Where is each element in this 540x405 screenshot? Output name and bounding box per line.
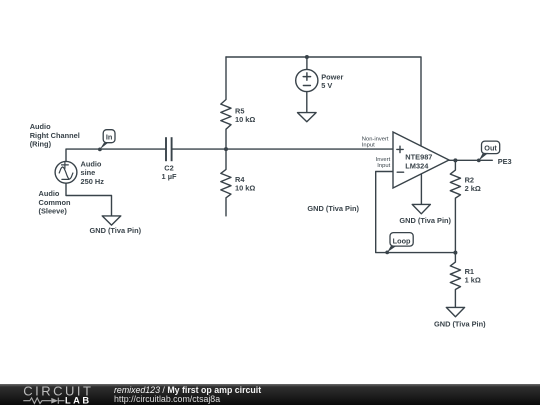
svg-text:R1: R1 xyxy=(465,267,474,276)
svg-text:Input: Input xyxy=(377,163,390,169)
svg-text:GND (Tiva Pin): GND (Tiva Pin) xyxy=(89,226,141,235)
svg-text:Audio: Audio xyxy=(30,122,51,131)
svg-text:Out: Out xyxy=(484,144,497,153)
svg-text:2 kΩ: 2 kΩ xyxy=(465,184,481,193)
svg-text:10 kΩ: 10 kΩ xyxy=(235,184,255,193)
svg-text:1 µF: 1 µF xyxy=(162,172,177,181)
svg-text:(Sleeve): (Sleeve) xyxy=(39,206,68,215)
svg-text:NTE987: NTE987 xyxy=(405,153,432,162)
svg-text:Non-invert: Non-invert xyxy=(362,136,389,142)
svg-text:250 Hz: 250 Hz xyxy=(81,177,105,186)
svg-text:GND (Tiva Pin): GND (Tiva Pin) xyxy=(399,216,451,225)
svg-text:Loop: Loop xyxy=(393,236,411,245)
svg-text:Right Channel: Right Channel xyxy=(30,131,80,140)
svg-text:10 kΩ: 10 kΩ xyxy=(235,115,255,124)
svg-text:C2: C2 xyxy=(164,163,173,172)
svg-text:LAB: LAB xyxy=(65,395,92,405)
svg-text:Invert: Invert xyxy=(376,157,391,163)
svg-text:GND (Tiva Pin): GND (Tiva Pin) xyxy=(307,204,359,213)
svg-text:PE3: PE3 xyxy=(498,157,512,166)
svg-text:(Ring): (Ring) xyxy=(30,140,52,149)
svg-text:1 kΩ: 1 kΩ xyxy=(465,276,481,285)
svg-text:5 V: 5 V xyxy=(321,81,332,90)
svg-text:LM324: LM324 xyxy=(405,161,429,170)
svg-text:In: In xyxy=(106,132,113,141)
svg-text:GND (Tiva Pin): GND (Tiva Pin) xyxy=(434,319,486,328)
svg-text:Input: Input xyxy=(362,142,375,148)
